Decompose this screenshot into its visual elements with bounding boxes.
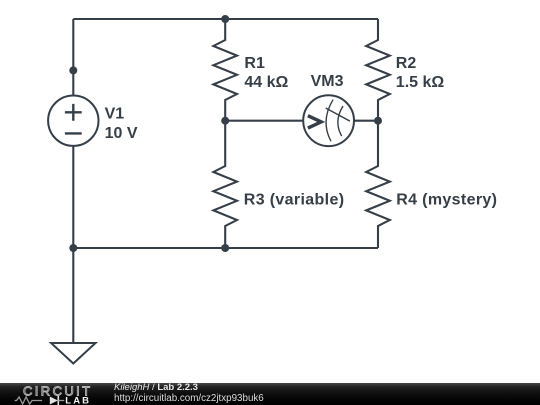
logo diode glyph bbox=[50, 397, 58, 405]
svg-text:R3 (variable): R3 (variable) bbox=[244, 192, 345, 209]
svg-text:VM3: VM3 bbox=[311, 73, 344, 90]
svg-text:V1: V1 bbox=[105, 106, 125, 123]
junction node R2 / R4 / VM3 right bbox=[374, 117, 382, 125]
footer url line bbox=[114, 394, 264, 404]
svg-text:R2: R2 bbox=[396, 55, 417, 72]
junction node left branch bbox=[69, 66, 77, 74]
svg-text:R4 (mystery): R4 (mystery) bbox=[396, 192, 497, 209]
resistor R1 bbox=[213, 19, 237, 121]
resistor R2 bbox=[366, 19, 390, 121]
footer bar bbox=[0, 383, 540, 405]
voltage source V1 bbox=[48, 96, 98, 146]
ground bbox=[51, 343, 95, 364]
wire VM3 right lead bbox=[354, 120, 378, 122]
footer credit line bbox=[114, 383, 198, 393]
resistor R4 bbox=[366, 121, 390, 248]
wire top rail from V1 branch to R2 branch bbox=[73, 18, 378, 20]
wire ground stem bbox=[72, 248, 74, 343]
junction node bottom rail / R3 bbox=[221, 244, 229, 252]
wire bottom rail from V1 branch to R4 branch bbox=[73, 247, 378, 249]
logo resistor glyph bbox=[15, 397, 42, 404]
svg-text:44 kΩ: 44 kΩ bbox=[244, 74, 288, 91]
svg-text:1.5 kΩ: 1.5 kΩ bbox=[396, 74, 445, 91]
voltmeter VM3 bbox=[303, 95, 354, 146]
resistor R3 bbox=[213, 121, 237, 248]
junction node R1 / R3 / VM3 left bbox=[221, 117, 229, 125]
wire VM3 left lead bbox=[225, 120, 303, 122]
CircuitLab logo wordmark bbox=[10, 382, 100, 405]
svg-text:R1: R1 bbox=[244, 55, 265, 72]
junction node top rail / R1 bbox=[221, 15, 229, 23]
svg-text:LAB: LAB bbox=[65, 396, 91, 405]
wire left branch top (V1 positive lead) bbox=[72, 19, 74, 96]
wire left branch bottom (V1 negative lead) bbox=[72, 146, 74, 248]
junction node bottom rail / ground bbox=[69, 244, 77, 252]
svg-text:10 V: 10 V bbox=[105, 125, 138, 142]
